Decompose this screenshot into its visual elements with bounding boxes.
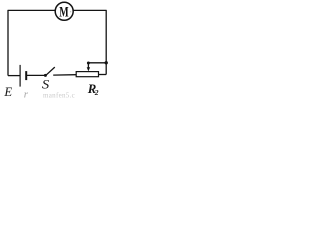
junction node dot on right bus [105,61,108,64]
wire: top-right segment + right bus [73,10,106,74]
rheostat wiper arrowhead [87,67,90,71]
svg-text:2: 2 [94,88,99,97]
wire: switch to rheostat [53,74,76,76]
battery E long plate (+) [19,65,21,87]
faint artifact dot in motor [70,11,71,12]
rheostat R2 body [76,72,98,77]
motor U1 circle [55,2,73,20]
wiper corner dot [87,62,90,65]
wire: rheostat right end to right bus [99,74,107,76]
rheostat wiper stem [87,63,89,68]
svg-text:S: S [42,78,50,92]
svg-text:r: r [24,88,29,100]
svg-text:M: M [59,5,68,21]
svg-text:manfen5.c: manfen5.c [43,92,75,100]
svg-text:E: E [3,85,12,99]
wire: battery to switch [27,74,45,76]
switch S pivot dot [44,74,47,77]
battery E short plate (-) [25,71,27,80]
wire: battery left lead [8,75,20,77]
wire: left bus + top-left segment [8,10,55,75]
switch S blade [46,67,55,75]
wire: wiper to right bus [88,62,106,64]
